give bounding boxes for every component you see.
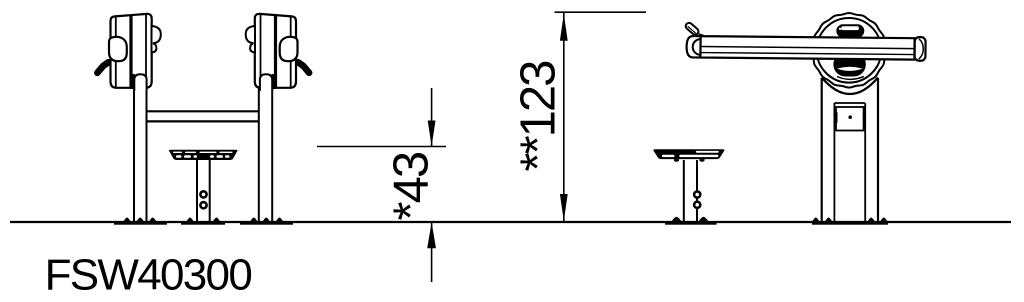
bar cap boundary [699,36,701,57]
foundation segment under pylon [812,221,888,225]
panel center dot [848,115,852,119]
svg-text:**123: **123 [512,61,566,172]
pylon left leg [821,78,823,221]
right head side tab [246,26,255,52]
bar highlight lines [701,47,915,49]
crossbar between posts [148,110,260,112]
bar body [686,36,914,60]
right post [258,70,260,221]
anchor bumps left post [123,218,156,222]
wheel lower slot outline arc [837,77,864,80]
front stool seat [169,150,238,160]
ground line [10,221,1011,223]
arrow down at ground [560,194,568,221]
side stool pedestal [683,160,685,221]
bar left handle [684,21,699,36]
right head inner line C [260,15,262,87]
left post [133,70,135,221]
side stool seat [653,149,724,159]
left head cover blob [109,37,127,61]
front stool bolts [200,191,206,197]
left head body [111,14,152,88]
pylon inner column right [864,103,866,221]
dim line *43 upper segment [431,88,433,147]
right head dark strip near post [272,74,277,89]
arrow up at top line [560,14,568,41]
anchor bumps front stool [186,218,220,222]
left head dark strip near post [131,74,136,89]
pylon access panel [836,107,864,131]
left head inner line C [145,15,147,87]
foundation segment under side stool [665,221,717,225]
foundation segment under left post [114,221,167,225]
svg-text:*43: *43 [385,152,439,220]
right head inner line B (thick) [274,15,277,88]
front stool seat slits [173,152,233,158]
arrow down at seat line [428,121,436,147]
extension line seat height [317,146,446,148]
wheel outer scalloped rim [812,13,887,88]
foundation segment under right post [240,221,293,225]
pylon collar arc under wheel [822,78,878,95]
left head inner line A [115,16,117,87]
left head side tab [152,26,161,52]
wheel upper handle slot [836,24,864,37]
left head post notch [134,74,146,91]
wheel lower handle slot [833,52,865,77]
right head cover blob [280,37,298,61]
wheel inner circle [817,18,882,83]
side stool seat tabs [674,159,705,162]
lifting bar [684,21,926,60]
bar cap dome [693,39,701,55]
front stool pedestal [196,160,198,221]
pylon inner column left [833,103,835,221]
left head handle grip [97,62,108,73]
pylon right leg [877,78,879,221]
pylon column top edge [834,102,865,104]
side stool bolts [694,191,700,197]
dim line *43 lower segment [431,222,433,282]
right head post notch [260,74,272,91]
side stool seat slit [662,155,675,157]
arrow up at ground [427,222,436,248]
svg-text:FSW40300: FSW40300 [45,251,252,300]
right head handle grip [298,62,309,73]
panel side clips [835,112,838,122]
right head body [255,14,296,88]
anchor bumps right post [250,218,283,222]
dim line **123 [563,13,565,222]
extension line top of wheel [555,11,647,13]
foundation segment under front stool [181,221,225,225]
anchor bumps side stool [671,217,709,222]
right head inner line A [290,16,292,87]
anchor bumps pylon [812,218,888,222]
bar right end knob [915,37,926,61]
left head inner line B (thick) [129,15,132,88]
